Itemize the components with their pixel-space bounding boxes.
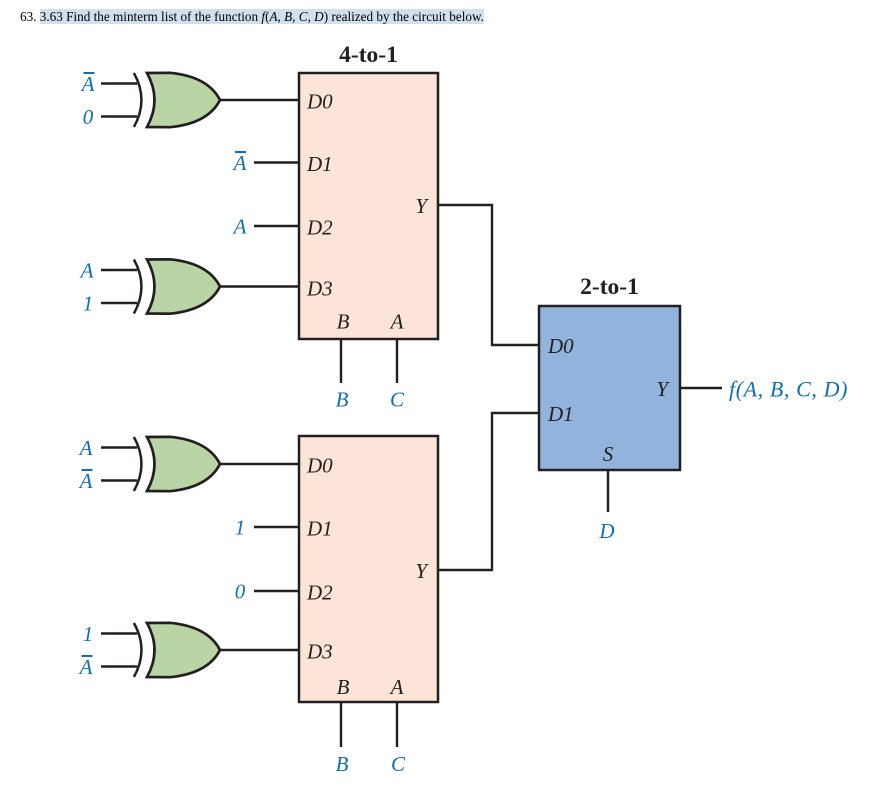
svg-text:B: B <box>336 752 349 776</box>
svg-text:A: A <box>78 469 93 493</box>
wire G2 output to U1 D3 <box>219 285 300 287</box>
xor gate G3 <box>134 437 220 491</box>
svg-text:A: A <box>232 215 247 239</box>
wire G3 input A <box>101 446 137 448</box>
svg-text:B: B <box>337 675 350 699</box>
svg-text:1: 1 <box>83 292 94 316</box>
svg-text:B: B <box>337 310 350 334</box>
svg-text:C: C <box>391 752 406 776</box>
svg-text:1: 1 <box>83 622 94 646</box>
wire U2 select A <box>396 702 398 747</box>
svg-text:D1: D1 <box>306 152 333 176</box>
label A-bar (G3 input) <box>78 469 93 493</box>
wire U2 D2 input <box>254 590 300 592</box>
wire G4 output to U2 D3 <box>219 649 300 651</box>
wire G2 input A <box>101 269 137 271</box>
svg-text:0: 0 <box>83 105 94 129</box>
wire U1 Y to U3 D0 <box>438 205 539 345</box>
wire G4 input 1 <box>101 632 137 634</box>
svg-text:D2: D2 <box>306 581 333 605</box>
svg-text:A: A <box>78 655 93 679</box>
svg-text:2-to-1: 2-to-1 <box>580 274 639 300</box>
xor gate G2 <box>134 259 220 313</box>
svg-text:A: A <box>80 72 95 96</box>
svg-text:f(A, B, C, D): f(A, B, C, D) <box>729 377 848 402</box>
svg-text:D0: D0 <box>547 334 574 358</box>
svg-text:D: D <box>598 519 614 543</box>
svg-text:A: A <box>79 259 94 283</box>
wire U2 Y to U3 D1 <box>438 413 539 570</box>
xor gate G1 <box>134 73 220 127</box>
svg-text:4-to-1: 4-to-1 <box>339 42 398 68</box>
wire U3 select S <box>607 470 609 512</box>
wire G3 input A-bar <box>101 479 137 481</box>
svg-text:D1: D1 <box>547 402 574 426</box>
svg-text:A: A <box>389 675 404 699</box>
wire U2 select B <box>340 702 342 747</box>
svg-text:A: A <box>232 151 247 175</box>
wire G1 output to U1 D0 <box>219 99 300 101</box>
wire U1 select B <box>340 339 342 383</box>
svg-text:C: C <box>390 388 405 412</box>
wire U1 D1 input <box>254 161 300 163</box>
wire U2 D1 input <box>254 526 300 528</box>
wire G2 input 1 <box>101 302 137 304</box>
label A-bar (G1 input) <box>80 72 95 96</box>
wire U3 Y output <box>680 387 722 389</box>
multiplexer U1 4-to-1 (top) <box>299 73 438 339</box>
wire G4 input A-bar <box>101 665 137 667</box>
wire U1 D2 input <box>254 225 300 227</box>
label A-bar (U1 D1 input) <box>232 151 247 175</box>
svg-text:D0: D0 <box>306 454 333 478</box>
svg-text:0: 0 <box>235 580 246 604</box>
svg-text:A: A <box>78 436 93 460</box>
svg-text:A: A <box>389 310 404 334</box>
svg-text:D3: D3 <box>306 640 333 664</box>
xor gate G4 <box>134 623 220 677</box>
wire G1 input 0 <box>101 115 137 117</box>
wire U1 select A <box>396 339 398 383</box>
svg-text:D3: D3 <box>306 277 333 301</box>
svg-text:D1: D1 <box>306 517 333 541</box>
multiplexer U2 4-to-1 (bottom) <box>299 436 438 702</box>
svg-text:S: S <box>603 442 614 466</box>
label A-bar (G4 input) <box>78 655 93 679</box>
problem statement text <box>20 9 484 25</box>
svg-text:B: B <box>336 388 349 412</box>
wire G1 input A-bar <box>101 82 137 84</box>
svg-text:D2: D2 <box>306 216 333 240</box>
multiplexer U3 2-to-1 <box>539 306 680 470</box>
svg-text:1: 1 <box>235 516 246 540</box>
svg-text:D0: D0 <box>306 90 333 114</box>
wire G3 output to U2 D0 <box>219 463 300 465</box>
